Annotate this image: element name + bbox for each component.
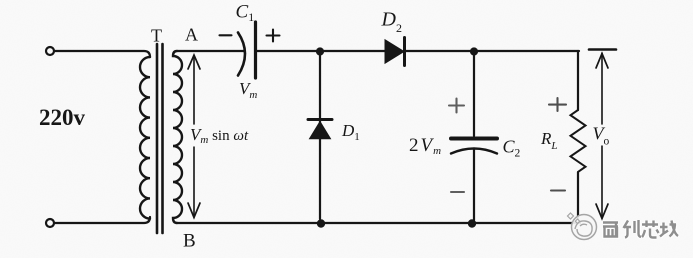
transformer core line 2 — [161, 44, 164, 233]
resistor RL zigzag — [571, 110, 586, 172]
Vo arrowhead down — [596, 204, 608, 219]
diode D2 cathode bar — [403, 38, 406, 66]
wire D2 to RL — [406, 50, 579, 52]
svg-text:A: A — [185, 25, 198, 45]
wire C1 to D2 — [257, 50, 385, 52]
plus sign RL — [549, 98, 566, 111]
transformer T primary winding — [140, 57, 150, 219]
capacitor C2 bottom wire — [473, 149, 475, 221]
Vo arrow line — [601, 53, 603, 218]
minus sign RL — [551, 189, 565, 191]
svg-text:Vm sin ωt: Vm sin ωt — [190, 125, 249, 146]
plus sign C1 — [267, 30, 280, 42]
diode D1 triangle — [310, 122, 331, 139]
Vo top bar — [589, 48, 616, 51]
terminal top-left — [46, 47, 54, 55]
svg-text:B: B — [183, 231, 196, 252]
plus sign C2 — [449, 99, 464, 113]
wire node A to C1 — [177, 50, 244, 52]
transformer core line 1 — [156, 44, 159, 233]
diode D2 triangle — [385, 40, 404, 63]
arrowhead up at A — [188, 55, 200, 69]
terminal bottom-left — [46, 219, 54, 227]
svg-text:220v: 220v — [39, 105, 86, 130]
node top D1 — [316, 47, 324, 55]
transformer T secondary winding — [173, 51, 182, 223]
node bottom C2 — [468, 219, 476, 227]
diode D1 wire — [319, 55, 321, 219]
wire top-left — [54, 51, 150, 57]
capacitor C1 straight plate — [254, 22, 257, 78]
Vo arrowhead up — [596, 54, 608, 69]
wire bottom rail — [177, 222, 580, 224]
capacitor C1 curved plate — [238, 33, 245, 76]
node top C2 — [470, 47, 478, 55]
capacitor C2 curved plate — [451, 149, 497, 154]
minus sign C1 — [220, 34, 232, 36]
minus sign C2 — [451, 191, 464, 193]
diode D1 cathode bar — [308, 118, 332, 121]
node bottom D1 — [317, 219, 325, 227]
arrowhead down at B — [188, 203, 200, 218]
capacitor C2 top plate — [451, 137, 497, 141]
svg-text:T: T — [151, 26, 162, 46]
Vm sin wt arrow line — [193, 56, 195, 216]
resistor RL top wire — [577, 51, 579, 110]
watermark text 融创芯城 (drawn strokes) — [603, 220, 678, 238]
watermark logo circle — [568, 213, 597, 240]
wire bottom-left — [54, 217, 150, 223]
capacitor C2 top wire — [473, 55, 475, 136]
resistor RL bottom wire — [577, 172, 579, 223]
